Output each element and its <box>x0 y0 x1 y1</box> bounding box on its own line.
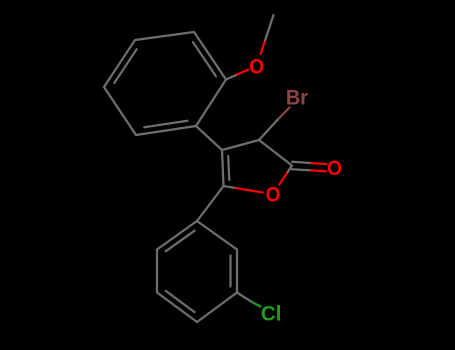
furanone bond C4=C5 main <box>222 150 224 186</box>
bond C3b-Cl green half <box>252 302 261 307</box>
bond O1-C5 gray part <box>224 186 235 188</box>
carbonyl C2=O2 upper line gray half <box>292 169 312 170</box>
ring B bond C3b(Cl-C)-C4b <box>197 293 237 323</box>
bond C4-ring A ipso <box>196 126 222 150</box>
bond O(methoxy)-aryl gray half <box>226 75 236 79</box>
ring A bond C2a-C3a <box>135 32 194 40</box>
svg-text:Br: Br <box>286 86 308 110</box>
ring A bond C4a-C5a <box>104 87 136 135</box>
ring A bond C5a-C6a(ipso) <box>136 126 196 135</box>
ring A double-bond inner line C5a-C6a(ipso) <box>144 121 187 127</box>
carbonyl C2=O2 upper line red half <box>312 170 326 171</box>
bond O1-C5 red part <box>234 188 262 193</box>
bond C5-ring B ipso <box>197 186 224 221</box>
furanone bond C4=C5 inner line <box>228 156 229 180</box>
ring B bond C5b-C6b <box>156 250 158 293</box>
bond O(methoxy)-aryl red half <box>236 70 249 76</box>
ring B bond C1b(ipso)-C2b <box>197 221 237 250</box>
bond O1-C2 red part <box>279 172 288 185</box>
ring B double-bond inner line C6b-C1b(ipso) <box>166 231 195 252</box>
bond C3-Br dark-red half <box>278 108 290 120</box>
svg-text:O: O <box>266 184 281 207</box>
ring A bond C3a-C4a <box>104 40 135 87</box>
ring A double-bond inner line C1a(OMe-C)-C2a <box>193 42 216 76</box>
ring B double-bond inner line C2b-C3b(Cl-C) <box>229 256 231 287</box>
ring A double-bond inner line C3a-C4a <box>114 49 136 83</box>
ring B bond C4b-C5b <box>157 293 197 323</box>
bond O(methoxy)-CH3 red half <box>261 40 266 54</box>
ring B double-bond inner line C4b-C5b <box>166 291 195 312</box>
carbonyl C2=O2 lower line red half <box>312 162 326 165</box>
ring B bond C6b-C1b(ipso) <box>157 221 197 250</box>
svg-text:O: O <box>249 56 264 79</box>
ring A bond C6a(ipso)-C1a(OMe-C) <box>196 80 226 127</box>
svg-text:Cl: Cl <box>261 302 282 325</box>
furanone bond C3-C4 <box>222 140 259 150</box>
carbonyl C2=O2 lower line gray half <box>292 162 312 163</box>
bond O(methoxy)-CH3 gray half <box>265 15 273 40</box>
bond O1-C2 gray part <box>288 166 292 172</box>
ring B bond C2b-C3b(Cl-C) <box>236 250 238 293</box>
bond C3-Br gray half <box>259 120 278 141</box>
furanone bond C2-C3 <box>259 140 292 166</box>
ring A bond C1a(OMe-C)-C2a <box>194 32 226 80</box>
svg-text:O: O <box>327 157 342 180</box>
bond C3b-Cl gray half <box>237 293 252 302</box>
